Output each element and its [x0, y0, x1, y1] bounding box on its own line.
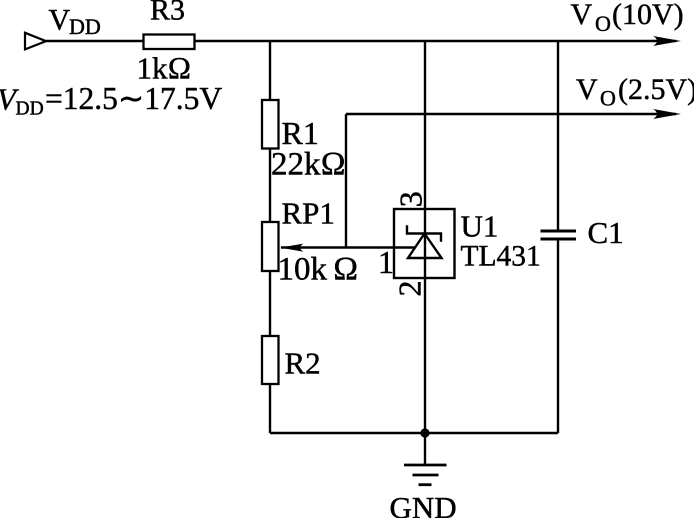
wire wiper to U1 pin 1: [281, 246, 415, 248]
wire bottom rail: [270, 432, 558, 434]
arrow Vo(10V): [653, 36, 681, 46]
resistor R2: [262, 336, 279, 384]
op-amp U1 box: [394, 209, 455, 278]
wire top rail: [46, 40, 676, 42]
svg-text:O: O: [600, 86, 616, 111]
wire U1 vertical (cathode/anode): [424, 41, 426, 433]
svg-text:(2.5V): (2.5V): [618, 73, 694, 106]
U1 internal zener cathode bar: [407, 225, 441, 241]
svg-text:1: 1: [378, 244, 394, 280]
potentiometer RP1: [262, 222, 279, 271]
resistor R1: [262, 100, 279, 149]
svg-text:U1: U1: [461, 209, 499, 244]
resistor R3: [144, 35, 195, 50]
svg-text:R3: R3: [150, 0, 185, 27]
svg-text:DD: DD: [69, 14, 101, 39]
svg-text:2: 2: [392, 281, 428, 297]
svg-text:=12.5∼17.5V: =12.5∼17.5V: [45, 81, 222, 116]
svg-text:GND: GND: [390, 490, 457, 518]
wire left vertical (R1/RP1/R2 chain): [269, 41, 271, 433]
junction dot: [420, 428, 429, 437]
svg-text:R2: R2: [285, 346, 321, 381]
svg-text:DD: DD: [16, 99, 44, 120]
arrow Vo(2.5V): [653, 109, 681, 119]
svg-text:10kΩ: 10kΩ: [278, 252, 359, 288]
wire C1 vertical lower: [557, 239, 559, 433]
svg-text:C1: C1: [588, 215, 624, 250]
U1 internal triangle: [408, 234, 442, 259]
svg-text:(10V): (10V): [612, 0, 684, 31]
svg-text:22kΩ: 22kΩ: [271, 147, 346, 183]
ground: [404, 464, 447, 467]
svg-text:V: V: [576, 73, 598, 106]
input terminal triangle: [25, 33, 46, 50]
wire wiper feedback vertical: [345, 114, 347, 248]
wire C1 vertical upper: [557, 41, 559, 231]
svg-text:RP1: RP1: [282, 196, 335, 231]
potentiometer RP1 wiper arrow: [280, 244, 304, 252]
svg-text:V: V: [571, 0, 593, 31]
wire Vo2.5 rail: [346, 113, 676, 115]
svg-text:O: O: [595, 11, 611, 36]
svg-text:V: V: [49, 4, 71, 37]
wire ground stub: [424, 433, 426, 465]
capacitor C1: [541, 230, 577, 233]
svg-text:TL431: TL431: [461, 241, 541, 273]
svg-text:3: 3: [393, 191, 429, 207]
